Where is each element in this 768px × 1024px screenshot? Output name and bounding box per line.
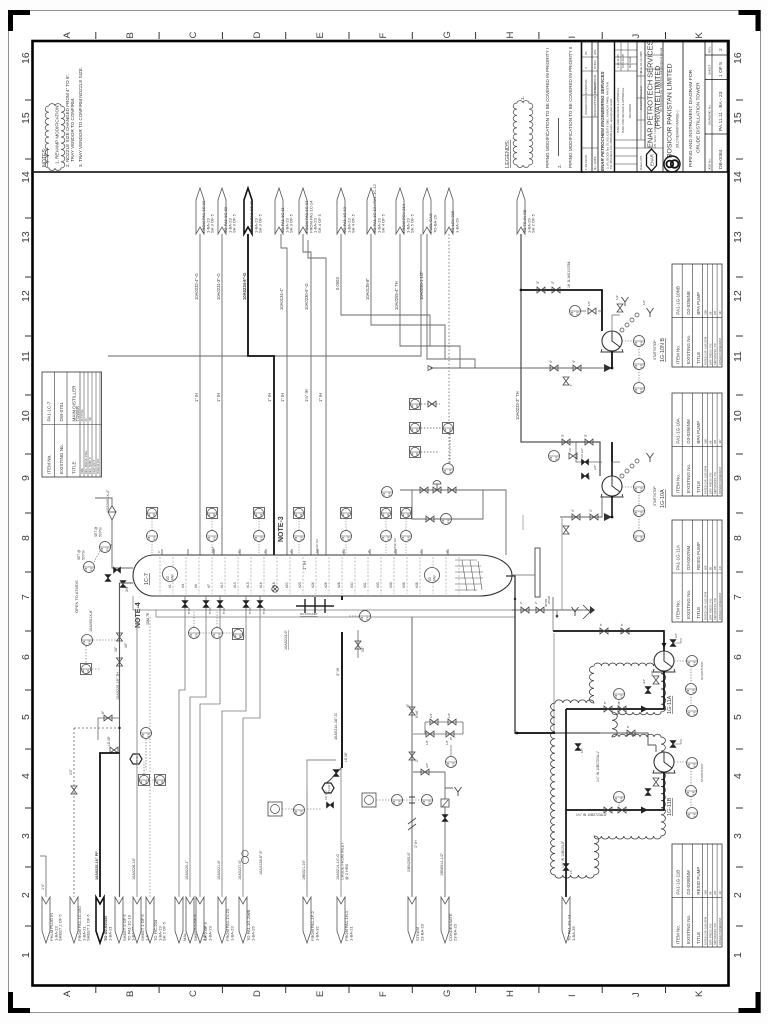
svg-text:SET @: SET @	[94, 527, 98, 537]
svg-text:SH 3 OF 5: SH 3 OF 5	[289, 213, 294, 233]
valve	[421, 769, 429, 775]
svg-text:4: 4	[584, 67, 588, 69]
wire line x373 jog right	[371, 234, 445, 359]
valve on dashed line	[428, 401, 436, 407]
svg-text:14: 14	[732, 171, 744, 183]
pump 1G-11B	[653, 752, 675, 773]
svg-text:1" IH: 1" IH	[216, 393, 221, 402]
title block	[582, 42, 729, 173]
svg-text:EXISTING No.: EXISTING No.	[686, 464, 691, 493]
svg-text:SEPT/ANTES. PSI: SEPT/ANTES. PSI	[713, 343, 717, 365]
interlock hexagon	[130, 754, 142, 764]
valve	[604, 706, 612, 712]
valve	[572, 514, 580, 520]
valve on bypass	[426, 516, 434, 522]
valve	[588, 308, 596, 314]
instrument LAH210	[410, 423, 421, 434]
svg-text:DES. PRESS. PSIG: DES. PRESS. PSIG	[84, 451, 88, 474]
strainer + vent	[620, 459, 639, 478]
svg-text:1 29-11-05: 1 29-11-05	[616, 54, 620, 68]
line from vessel right bottom down to resid header	[506, 576, 600, 733]
svg-text:10A0001X-4": 10A0001X-4"	[106, 489, 110, 512]
svg-text:ISSUED FOR APPROVAL: ISSUED FOR APPROVAL	[584, 79, 588, 115]
valve	[409, 752, 415, 760]
wire line x305 to vessel	[303, 234, 311, 555]
svg-text:1/2": 1/2"	[447, 713, 451, 718]
revamp cloud around resid pump manifolds	[551, 663, 666, 878]
svg-text:8"x6": 8"x6"	[208, 607, 212, 614]
svg-text:23-BA-23: 23-BA-23	[452, 923, 457, 941]
svg-text:DB-0084: DB-0084	[718, 149, 724, 169]
instrument TC233 square	[139, 775, 150, 786]
svg-text:TITLE: TITLE	[696, 607, 701, 619]
instrument TI231	[141, 728, 152, 739]
notes block	[42, 67, 83, 167]
LG/LC level cluster	[410, 399, 454, 525]
svg-text:1-BA-21: 1-BA-21	[348, 926, 353, 941]
svg-text:Date 04-10-2005: Date 04-10-2005	[639, 51, 643, 73]
svg-text:10A0223-6": 10A0223-6"	[284, 629, 288, 650]
valve	[521, 607, 529, 613]
reducer y368	[428, 366, 433, 371]
svg-text:10A0230-6"-G: 10A0230-6"-G	[304, 283, 309, 310]
suction y517	[560, 496, 602, 517]
svg-text:13: 13	[20, 231, 32, 243]
svg-text:1" IH: 1" IH	[267, 393, 272, 402]
vent funnel	[647, 308, 654, 317]
legends block	[505, 47, 573, 168]
item table T4	[672, 844, 722, 947]
svg-text:D3-0207NM: D3-0207NM	[686, 545, 691, 570]
vent above 11A	[670, 640, 676, 647]
svg-text:D3-0206NM: D3-0206NM	[686, 419, 691, 444]
svg-text:ISSD. FOR REVIEW & APPROVAL: ISSD. FOR REVIEW & APPROVAL	[621, 87, 625, 133]
RI circle + LO valves cluster left of 10A discharge	[549, 451, 560, 462]
vertical process lines from top flags	[108, 234, 600, 555]
instrument CAL 11B	[686, 786, 697, 797]
valve (black) relief line	[105, 575, 111, 582]
svg-text:ITEM No.: ITEM No.	[47, 455, 52, 474]
orifice flanges on line	[409, 797, 415, 803]
svg-text:1¼" IH: 1¼" IH	[304, 389, 309, 402]
svg-text:DESCRIPTION OF REVISION: DESCRIPTION OF REVISION	[593, 75, 597, 117]
svg-text:147: 147	[718, 439, 722, 444]
svg-text:3/4": 3/4"	[125, 585, 129, 592]
svg-text:DRIVER POWER/RPM: DRIVER POWER/RPM	[718, 918, 722, 945]
svg-text:2": 2"	[519, 601, 523, 604]
enar petrochem col	[600, 71, 613, 171]
svg-text:A: A	[62, 32, 73, 39]
svg-text:16: 16	[732, 52, 744, 64]
svg-text:10: 10	[732, 410, 744, 422]
svg-text:4": 4"	[589, 509, 593, 512]
svg-text:TITLE: TITLE	[696, 352, 701, 364]
instrument LAL210	[410, 447, 421, 458]
flag TO TE-IN SB	[517, 188, 525, 234]
svg-text:Drawn ATS: Drawn ATS	[639, 156, 643, 170]
svg-text:#28: #28	[337, 582, 341, 588]
valve	[409, 707, 415, 715]
flag TO PA1-1C-12	[337, 188, 345, 234]
bold branch to TO D2-0201N flag	[100, 753, 120, 897]
svg-text:DB: DB	[713, 891, 717, 895]
svg-text:No. DATE: No. DATE	[593, 156, 597, 170]
svg-text:1/2": 1/2"	[580, 748, 584, 753]
svg-text:5: 5	[732, 714, 744, 720]
svg-text:DIFF. PRESS. PSI: DIFF. PRESS. PSI	[708, 472, 712, 494]
instrument square x299	[294, 508, 305, 519]
valve	[552, 287, 560, 293]
11B suction header y733	[515, 733, 656, 745]
valve	[420, 487, 428, 493]
svg-text:1G-10N B: 1G-10N B	[660, 338, 666, 362]
svg-text:4": 4"	[367, 550, 371, 553]
11A discharge to y709	[566, 671, 664, 709]
RE circle 11A	[614, 689, 625, 700]
svg-text:8: 8	[732, 535, 744, 541]
steam line x412	[362, 617, 433, 897]
internal sparger symbol	[296, 597, 334, 613]
collector line under vessel	[133, 596, 590, 617]
svg-text:LEGENDS:: LEGENDS:	[505, 139, 511, 168]
svg-text:OPEN TO ATMOS: OPEN TO ATMOS	[74, 580, 79, 613]
svg-text:10A0234-6"-G: 10A0234-6"-G	[242, 273, 247, 300]
svg-text:8"x6": 8"x6"	[222, 607, 226, 614]
wire line x285 to vessel	[281, 234, 287, 555]
corner mark top-right	[739, 10, 761, 31]
dashed line x74 and junction	[69, 727, 121, 897]
svg-text:3: 3	[20, 833, 32, 839]
svg-text:1 29-09-05: 1 29-09-05	[584, 155, 588, 170]
svg-text:1G-11A: 1G-11A	[667, 695, 673, 714]
svg-text:8": 8"	[603, 701, 607, 704]
svg-text:4: 4	[20, 773, 32, 779]
svg-text:START/STOP: START/STOP	[700, 661, 704, 680]
small valves	[120, 581, 126, 588]
svg-text:JOB No.: JOB No.	[708, 158, 712, 170]
svg-text:1-BA-21: 1-BA-21	[107, 926, 112, 941]
svg-text:BPA PUMP: BPA PUMP	[696, 292, 701, 315]
valve	[604, 807, 612, 813]
svg-text:11: 11	[732, 351, 744, 362]
svg-text:4"x3": 4"x3"	[211, 546, 215, 553]
svg-text:8": 8"	[620, 623, 624, 626]
svg-text:LO 1¼": LO 1¼"	[324, 790, 328, 800]
svg-text:4": 4"	[445, 550, 449, 553]
instrument square x346	[341, 508, 352, 519]
svg-text:8: 8	[20, 535, 32, 541]
drains 11B	[645, 789, 651, 796]
svg-text:#10: #10	[220, 582, 224, 588]
flag TO D2-0201N	[96, 897, 104, 943]
svg-text:#20: #20	[285, 582, 289, 588]
grid ticks top/bottom	[96, 32, 666, 993]
valve	[536, 607, 544, 613]
svg-text:2": 2"	[534, 601, 538, 604]
svg-text:PA.11.11 - BA - 23: PA.11.11 - BA - 23	[718, 91, 724, 131]
svg-text:SEPT/ANTES. PSI: SEPT/ANTES. PSI	[713, 598, 717, 620]
instrument TI	[441, 514, 452, 525]
suction line y368 valves	[550, 365, 558, 371]
svg-text:#4: #4	[181, 584, 185, 588]
svg-text:19B6014-1/2": 19B6014-1/2"	[440, 852, 444, 876]
instrument TI233 square	[155, 775, 166, 786]
TI229 circle + TC cluster	[107, 728, 166, 786]
svg-text:TRAY VENDOR TO CONFIRM.: TRAY VENDOR TO CONFIRM.	[70, 98, 75, 162]
instrument LC210	[443, 423, 454, 434]
instrument TI602	[294, 805, 305, 816]
svg-text:DRIVER POWER/RPM: DRIVER POWER/RPM	[718, 467, 722, 494]
svg-text:1: 1	[20, 952, 32, 958]
svg-text:6: 6	[20, 654, 32, 660]
valve x121 y662	[117, 658, 123, 666]
svg-text:1G-11B: 1G-11B	[667, 797, 673, 816]
svg-text:RATED CAP. GUS.GPM: RATED CAP. GUS.GPM	[704, 337, 708, 365]
svg-text:2: 2	[718, 48, 724, 51]
svg-text:TOWER: TOWER	[75, 406, 80, 422]
flag FROM PCV-214	[396, 188, 404, 234]
instrument square x152	[147, 508, 158, 519]
svg-text:3/4": 3/4"	[642, 679, 646, 684]
valve (black)	[582, 459, 589, 465]
valve	[653, 778, 659, 786]
flag SHEET 5 OF 6	[115, 897, 123, 943]
svg-text:RATED CAP. GUS.GPM: RATED CAP. GUS.GPM	[704, 592, 708, 620]
svg-text:4": 4"	[571, 509, 575, 512]
svg-text:LO 16": LO 16"	[344, 752, 348, 762]
svg-text:3, US, BLOCK No. 75, KILLICENT: 3, US, BLOCK No. 75, KILLICENT 8 SMS., K…	[606, 82, 610, 169]
svg-text:CRUDE DISTILLATION TOWER: CRUDE DISTILLATION TOWER	[696, 82, 702, 153]
flag TO PA1-1C-13 / PA1-1C-12	[367, 188, 375, 234]
svg-text:740: 740	[88, 417, 92, 422]
svg-text:10A0225-16" PP: 10A0225-16" PP	[95, 851, 99, 880]
svg-text:K: K	[694, 32, 705, 39]
rev table rows	[582, 42, 664, 165]
bosicor col	[667, 63, 680, 158]
flag FROM PA1-1V-23	[218, 897, 226, 943]
pump 1G-10A group	[601, 476, 623, 497]
svg-text:LO 16": LO 16"	[107, 736, 111, 746]
ENAR hexagon logo	[647, 149, 657, 171]
svg-text:1/2": 1/2"	[615, 295, 619, 300]
svg-text:4": 4"	[549, 360, 553, 363]
svg-text:Chkd BA Checked: Chkd BA Checked	[639, 86, 643, 110]
svg-text:13: 13	[732, 231, 744, 243]
svg-text:6": 6"	[157, 550, 161, 553]
instrument PAL 11A	[687, 706, 698, 717]
valve	[621, 628, 629, 634]
svg-text:2.: 2.	[557, 164, 562, 168]
svg-text:8"x6": 8"x6"	[262, 607, 266, 614]
svg-text:PA1-1G-11B: PA1-1G-11B	[676, 870, 681, 895]
svg-text:TO-BA-29: TO-BA-29	[432, 214, 437, 233]
svg-text:#1: #1	[168, 584, 172, 588]
flag PHLM PLUG IN	[42, 897, 50, 943]
flag FROM PA1-1F-2	[303, 897, 311, 943]
svg-text:B: B	[125, 991, 136, 997]
svg-text:4": 4"	[289, 550, 293, 553]
vessel internal trays	[160, 557, 459, 594]
steam trap square	[441, 799, 449, 807]
strainer chain	[620, 313, 639, 332]
TI229 dashed stub	[307, 760, 336, 897]
svg-text:K: K	[694, 990, 705, 997]
svg-text:(OLD REVAMP MARGE--): (OLD REVAMP MARGE--)	[676, 111, 680, 148]
svg-text:30%R: 30%R	[544, 598, 548, 607]
svg-text:START/STOP: START/STOP	[653, 486, 657, 506]
FT236B square	[362, 793, 376, 807]
svg-text:10A0214-14"-G: 10A0214-14"-G	[336, 854, 340, 880]
instrument LC212	[443, 464, 454, 475]
svg-text:6: 6	[732, 654, 744, 660]
bold line from flag x248	[248, 234, 274, 555]
svg-text:0.0503: 0.0503	[335, 277, 340, 290]
instrument circle x299	[294, 531, 305, 542]
svg-text:3/4": 3/4"	[361, 646, 365, 652]
flag FROM PA1-1C-10	[196, 188, 204, 234]
svg-text:H: H	[505, 32, 516, 39]
svg-text:PA1-1G-11A: PA1-1G-11A	[676, 545, 681, 570]
svg-text:15M 7E: 15M 7E	[146, 612, 150, 625]
svg-text:3: 3	[732, 833, 744, 839]
svg-text:1-BA-35: 1-BA-35	[571, 926, 576, 941]
TI233 circle below vessel	[212, 628, 223, 639]
svg-text:RATED CAP. GUS.GPM: RATED CAP. GUS.GPM	[704, 917, 708, 945]
svg-text:MW: MW	[433, 575, 437, 581]
svg-text:ITEM No.: ITEM No.	[676, 925, 681, 944]
valve	[71, 786, 77, 794]
svg-text:#23: #23	[298, 582, 302, 588]
svg-text:SEPT/ANTES. PSI: SEPT/ANTES. PSI	[713, 923, 717, 945]
valve	[590, 514, 598, 520]
svg-text:PI: PI	[449, 737, 453, 740]
svg-text:1.: 1.	[520, 96, 525, 100]
FI236M circle	[392, 795, 403, 806]
main line 10A0226 from vessel left, down	[81, 583, 134, 897]
valve	[653, 676, 659, 684]
svg-text:6": 6"	[419, 550, 423, 553]
svg-text:I: I	[567, 36, 578, 39]
svg-text:16": 16"	[114, 646, 118, 652]
svg-text:10A0255-4" TH: 10A0255-4" TH	[394, 281, 399, 310]
svg-text:No. Date: No. Date	[628, 56, 632, 68]
svg-text:147: 147	[718, 310, 722, 315]
svg-text:10A0226-18" TH: 10A0226-18" TH	[116, 672, 120, 700]
svg-text:15: 15	[20, 112, 32, 124]
item table T1	[672, 264, 722, 367]
svg-text:LS: LS	[569, 870, 573, 874]
svg-text:12: 12	[732, 290, 744, 302]
instrument PSH204	[84, 562, 95, 573]
KC circle + valve branch	[570, 306, 581, 317]
svg-text:1/2": 1/2"	[587, 301, 591, 306]
valve	[627, 730, 635, 736]
svg-text:1" IH: 1" IH	[414, 840, 418, 848]
svg-text:10AX128-6" 6": 10AX128-6" 6"	[259, 849, 263, 875]
svg-text:10A0232-4"-G: 10A0232-4"-G	[194, 273, 199, 300]
PSV relief valve	[108, 506, 116, 520]
flag FROM PA1-1C-13	[299, 188, 307, 234]
enar petrotech name	[646, 40, 664, 148]
svg-text:SHEET 1 OF 6: SHEET 1 OF 6	[86, 914, 91, 941]
svg-text:9: 9	[732, 475, 744, 481]
svg-text:Tel: 5063137-4 Fax: 5066704 E: Tel: 5063137-4 Fax: 5066704 E-mail: eps@…	[659, 47, 663, 112]
svg-text:10A0134-4": 10A0134-4"	[279, 288, 284, 310]
item table T0 main distiller tower	[42, 372, 102, 477]
valve (black)	[257, 601, 263, 608]
svg-text:1C-7: 1C-7	[144, 573, 150, 585]
svg-text:DB: DB	[713, 311, 717, 315]
svg-text:3-B, Sector 7-A Korangi Indust: 3-B, Sector 7-A Korangi Industrial Area,…	[653, 82, 657, 148]
svg-text:D: D	[252, 990, 263, 997]
line labels rotated	[194, 271, 520, 570]
svg-text:DRIVER POWER/RPM: DRIVER POWER/RPM	[718, 338, 722, 365]
valve (black)	[182, 601, 188, 608]
gray line x523 from y515 down right	[522, 515, 524, 530]
svg-text:10A0221-6": 10A0221-6"	[217, 859, 221, 880]
svg-text:E: E	[315, 991, 326, 997]
svg-text:308: 308	[704, 890, 708, 895]
svg-text:SET @: SET @	[77, 550, 81, 560]
vent circle	[272, 586, 278, 592]
wire line x425b turn left	[108, 234, 421, 356]
flag SH 2 OF 5	[196, 897, 204, 943]
svg-text:PH: 4551492-5 FAX: 4556306 E-M: PH: 4551492-5 FAX: 4556306 E-MAIL: epes@…	[609, 98, 613, 169]
TC square below vessel	[233, 629, 244, 640]
instrument MS 11B	[687, 758, 698, 769]
discharge cluster above 1G-10A	[611, 442, 613, 476]
instrument W602 square	[268, 802, 282, 816]
corner mark bottom-right	[739, 992, 761, 1013]
instrument square x386	[381, 508, 392, 519]
wire line from flag x205 to vessel	[199, 234, 201, 555]
instrument circle x346	[341, 531, 352, 542]
instrument circle x386	[381, 531, 392, 542]
svg-text:10A0233-3" TH: 10A0233-3" TH	[515, 391, 520, 420]
flag STEAM	[408, 897, 416, 943]
svg-text:15: 15	[732, 112, 744, 124]
instrument PSH202	[100, 542, 111, 553]
drains 11A	[645, 687, 651, 694]
flag FROM PA1-1C-11	[244, 188, 252, 234]
svg-text:BOSICOR PAKISTAN LIMITED: BOSICOR PAKISTAN LIMITED	[667, 63, 674, 158]
valve (black)	[243, 601, 249, 608]
svg-text:1G-10A: 1G-10A	[660, 489, 666, 508]
svg-text:PREPD: PREPD	[593, 82, 597, 93]
svg-text:B: B	[125, 32, 136, 38]
svg-text:PIPING MODIFICATION TO BE: PIPING MODIFICATION TO BE COVERED IN PRI…	[568, 47, 573, 168]
instrument square x259	[254, 508, 265, 519]
svg-text:10A0001X-6": 10A0001X-6"	[89, 609, 93, 632]
svg-text:EXISTING No.: EXISTING No.	[59, 444, 64, 474]
bosicor logo (double circle)	[664, 156, 680, 172]
svg-text:1-BA-23: 1-BA-23	[229, 926, 234, 941]
svg-text:20: 20	[584, 51, 588, 55]
instrument MS 11A	[687, 656, 698, 667]
svg-text:EXISTING No.: EXISTING No.	[686, 915, 691, 944]
svg-text:I: I	[567, 994, 578, 997]
11B discharge to y810	[566, 772, 664, 810]
svg-text:START/STOP: START/STOP	[653, 340, 657, 360]
svg-text:BPA PUMP: BPA PUMP	[696, 421, 701, 444]
svg-text:6"x4": 6"x4"	[415, 709, 419, 718]
svg-text:REV.: REV.	[708, 46, 712, 53]
flag MAL	[175, 897, 183, 943]
svg-text:INSULATION: INSULATION	[96, 459, 100, 474]
valve (black)	[582, 473, 589, 479]
svg-text:RESID PUMP: RESID PUMP	[696, 867, 701, 895]
svg-text:16": 16"	[124, 642, 128, 648]
